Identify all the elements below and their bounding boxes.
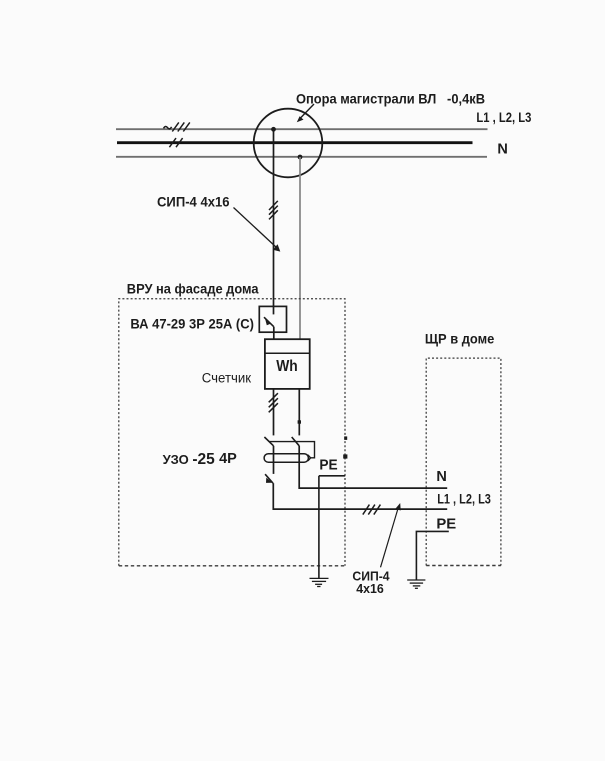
wire PE down to earth [318,476,320,579]
RCD УЗО right contact blade [292,437,300,446]
svg-text:L1 , L2, L3: L1 , L2, L3 [476,110,531,125]
arrow from label to pole circle [297,104,314,122]
wire phase through toroid [273,446,275,474]
RCD linkage to toroid tip [270,442,315,458]
node junction dot on neutral line [298,155,303,160]
node PE square dot upper on enclosure edge [344,436,347,440]
wire phase below meter [273,389,275,436]
RCD УЗО left contact blade [264,437,273,446]
wire phase L1,L2,L3 to house board [273,483,447,509]
RCD lower blade with arrow [265,474,273,483]
node PE square dot lower on enclosure edge [343,454,347,458]
svg-text:ВА 47-29 3Р 25А (С): ВА 47-29 3Р 25А (С) [130,317,254,332]
svg-text:Опора магистрали ВЛ -0,4кВ: Опора магистрали ВЛ -0,4кВ [296,91,485,106]
svg-text:УЗО -25 4Р: УЗО -25 4Р [163,451,238,468]
three slashes below meter [269,393,278,412]
svg-text:РЕ: РЕ [319,458,338,474]
meter terminal divider line [265,352,310,354]
wire phase drop from top line to breaker [273,129,275,306]
energy meter Wh box [265,339,310,389]
svg-text:Wh: Wh [276,358,298,375]
node square dot on neutral wire [298,420,301,423]
svg-text:ЩР в доме: ЩР в доме [425,331,495,347]
ЩР house board dashed box [426,358,501,565]
three slashes on L wire [363,505,381,515]
three slashes on phase drop wire [269,201,278,220]
breaker incoming pin [273,306,275,314]
wire PE in house board [416,531,448,580]
ground earth symbol at ЩР [407,580,425,588]
svg-text:L1 , L2, L3: L1 , L2, L3 [437,492,491,507]
RCD toroid right tip [308,455,311,461]
svg-text:ВРУ на фасаде дома: ВРУ на фасаде дома [127,280,259,296]
wire neutral N to house board [299,446,447,488]
svg-text:N: N [497,141,507,157]
arrow from СИП-4 label to drop wire [234,208,281,252]
ground earth symbol at ВРУ [310,578,329,586]
AC tilde mark on top line [164,126,172,128]
ВРУ enclosure dashed box [119,299,345,566]
svg-text:Счетчик: Счетчик [202,370,252,386]
breaker outgoing pin [273,327,275,340]
svg-text:СИП-4 4х16: СИП-4 4х16 [157,193,230,209]
wire neutral drop from N line to meter (grey) [299,157,301,339]
svg-text:4х16: 4х16 [356,581,384,596]
two slashes on middle line [169,138,182,147]
wire neutral below meter [298,389,300,436]
svg-text:N: N [436,469,446,485]
three phase slashes on top line [172,122,190,131]
svg-text:PE: PE [436,516,456,532]
RCD differential toroid oval [264,454,308,463]
pole circle (Опора) [254,109,323,178]
wire overhead line L1,L2,L3 (top phase conductor) [116,128,488,130]
wire overhead line N (bottom neutral conductor) [116,156,487,158]
breaker contact blade with release arrow [264,317,274,327]
arrow from lower СИП-4 label to L wire [381,503,401,567]
node junction dot on top line [271,127,276,132]
wire PE bond to enclosure edge [319,475,345,477]
wire overhead line (middle thick conductor) [117,141,473,144]
circuit breaker QF box ВА 47-29 [259,306,286,332]
